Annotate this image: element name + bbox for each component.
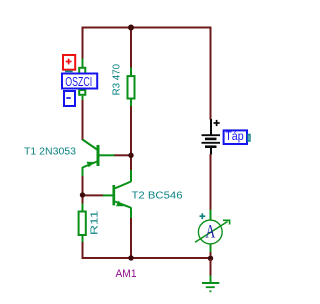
wire: OSZCI bottom to T1 collector <box>82 99 84 140</box>
wire: node A down to R11 <box>82 196 84 204</box>
OSZCI probe stem <box>65 70 73 72</box>
wire: rail corner down to OSZCI top terminal (green pin stub) <box>82 59 84 68</box>
wire: T1 emitter down to node A <box>82 176 84 193</box>
svg-text:A: A <box>205 222 215 242</box>
svg-text:R11: R11 <box>90 210 101 235</box>
wire: battery to ammeter <box>210 154 212 210</box>
junction node A: T1 emitter / T2 base / R11 <box>80 192 85 197</box>
wire: node to T1 base <box>114 154 129 156</box>
transistor T1 (2N3053) <box>83 140 115 177</box>
junction node: rail / R3 <box>128 25 134 31</box>
oscilloscope OSZCI: bottom terminal <box>79 90 85 95</box>
junction node: T2 emitter / bottom rail <box>128 255 133 260</box>
svg-text:OSZCI: OSZCI <box>65 74 92 89</box>
label + (battery positive) <box>214 120 220 126</box>
transistor T2 (BC546) <box>103 170 131 218</box>
junction node: ammeter / bottom rail / ground <box>208 256 213 261</box>
battery Táp: plates <box>202 135 221 147</box>
svg-text:AM1: AM1 <box>116 268 137 280</box>
wire: R3 bottom to T1 base node <box>130 106 132 153</box>
resistor R11 <box>79 204 86 243</box>
wire: bottom rail from R11 to ammeter <box>83 242 211 258</box>
wire: node to ground <box>210 259 212 276</box>
svg-text:T2 BC546: T2 BC546 <box>132 191 183 202</box>
battery Táp: top lead <box>210 119 212 135</box>
oscilloscope OSZCI: body box <box>62 74 97 89</box>
label - (OSZCI negative) <box>66 97 70 99</box>
oscilloscope OSZCI: + probe box <box>63 55 75 70</box>
wire: R3 top drop from rail <box>130 28 132 69</box>
wire: T2 collector drop from node <box>130 156 132 171</box>
junction node: R3 / T1 base / T2 collector <box>128 153 133 158</box>
label Táp (boxed) <box>224 130 247 144</box>
resistor R3 <box>128 68 135 107</box>
ammeter AM1 <box>195 210 230 253</box>
wire: ammeter to bottom rail <box>210 252 212 256</box>
svg-text:T1 2N3053: T1 2N3053 <box>24 147 76 158</box>
svg-text:Táp: Táp <box>225 129 244 143</box>
oscilloscope OSZCI: bottom pin stub <box>82 96 84 100</box>
label + (OSZCI positive) <box>66 59 72 65</box>
svg-text:R3 470: R3 470 <box>112 63 123 95</box>
ground <box>202 275 219 291</box>
wire: top rail from left branch to right branch <box>83 28 211 120</box>
oscilloscope OSZCI: top terminal <box>79 68 85 75</box>
battery field handle <box>248 135 250 142</box>
wire: T2 emitter down to bottom rail <box>130 218 132 256</box>
wire: node A to T2 base <box>84 194 104 196</box>
oscilloscope OSZCI: - probe box <box>64 91 75 106</box>
battery Táp: bottom lead <box>210 147 212 155</box>
label + (ammeter positive) <box>200 213 206 219</box>
